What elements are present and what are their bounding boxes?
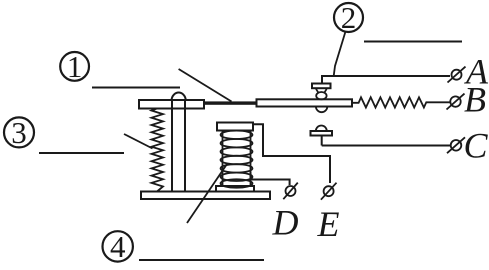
label circle 1 [60,52,89,81]
terminal D [286,186,296,196]
post [171,100,173,192]
coil core [222,131,224,187]
answer line 4 [139,259,264,261]
D wire [251,172,290,185]
return spring [152,109,164,192]
lower fixed contact dome [316,126,327,132]
svg-text:2: 2 [341,0,357,35]
C wire [322,145,450,147]
svg-text:4: 4 [110,229,126,264]
coil flange [216,186,254,192]
resistor R [352,97,450,107]
pivot arch [172,92,186,100]
terminal E [324,186,334,196]
moving contact dome (below bar) [316,107,327,113]
label circle 4 [103,231,133,261]
leader line 2 [334,32,346,77]
leader line 4 [187,164,227,223]
answer line 3 [39,152,124,154]
label circle 3 [4,117,34,147]
upper fixed contact plate [312,84,331,89]
answer line 2 [364,41,462,43]
terminal B [450,96,460,106]
E wire [253,124,330,183]
answer line 1 [92,87,180,89]
terminal C [451,140,462,151]
svg-text:C: C [464,126,489,166]
label circle 2 [334,3,363,32]
contact funnel [316,88,327,92]
coil turns [221,131,253,139]
leader line 3 [124,134,153,149]
bracket top bar [139,100,204,109]
lower fixed contact plate [311,131,333,136]
svg-text:D: D [272,203,299,243]
leader line 1 [179,69,232,102]
terminal A [452,70,462,80]
svg-text:B: B [464,80,486,120]
armature bar [257,99,353,106]
base plate [141,192,270,200]
svg-text:3: 3 [11,115,27,150]
coil cap [217,123,253,131]
moving contact ball (above bar) [316,92,326,99]
svg-text:1: 1 [67,49,83,84]
armature iron strip [204,101,257,104]
svg-text:E: E [317,204,340,244]
A wire [322,76,450,84]
contact stem [321,136,323,146]
